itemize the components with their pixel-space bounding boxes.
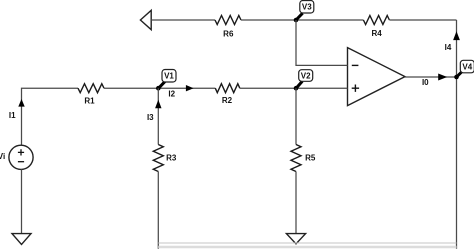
wire node V1 down to R3 [157, 88, 159, 144]
junction at node V3 [294, 18, 299, 23]
junction at node V2 [294, 86, 299, 91]
voltage source Vi [0, 145, 33, 169]
current arrow I4 [453, 31, 460, 40]
wire R5 down to ground [295, 172, 297, 234]
ground GND3 (below R5) [286, 234, 305, 244]
wire R3 down to bottom rail [157, 172, 159, 249]
tick node V4 to label [457, 71, 463, 77]
wire Vi down to ground [21, 169, 23, 233]
svg-text:R2: R2 [222, 96, 233, 105]
resistor R3 [153, 145, 177, 172]
wire node V3 down to inverting input [296, 20, 348, 65]
svg-text:R6: R6 [223, 30, 234, 39]
current arrow I0 [438, 74, 447, 81]
svg-text:V1: V1 [164, 72, 174, 81]
svg-text:I2: I2 [168, 90, 175, 99]
ground GND2 (below Vi) [12, 234, 31, 245]
wire node V2 down to R5 [295, 88, 297, 144]
tick node V3 to label [296, 13, 303, 20]
node label V3 [300, 1, 314, 14]
node label V1 [162, 70, 176, 83]
wire R2 to node V2 and on to non-inverting input [240, 87, 348, 89]
svg-text:I0: I0 [422, 78, 429, 87]
resistor R4 [363, 16, 389, 38]
svg-text:R3: R3 [166, 154, 177, 163]
svg-text:R1: R1 [84, 96, 95, 105]
node label V4 [460, 60, 474, 73]
wire R4 to top-right corner [389, 19, 456, 21]
op-amp U1 [348, 48, 406, 106]
wire R1 to node V1 and on to R2 [104, 87, 215, 89]
svg-text:V3: V3 [302, 3, 312, 12]
resistor R5 [291, 145, 316, 172]
svg-text:Vi: Vi [0, 152, 5, 161]
svg-text:I3: I3 [147, 113, 154, 122]
junction at node V4 [454, 75, 459, 80]
resistor R6 [215, 16, 241, 39]
wire right vertical (corner down through node V4 to bottom) [456, 20, 458, 249]
junction at node V1 [156, 86, 161, 91]
ground GND1 (rotated, pointing left, top-left) [140, 10, 151, 29]
svg-text:V4: V4 [462, 62, 472, 71]
wire left branch: corner to R1 and down to source Vi [22, 88, 79, 145]
svg-text:R5: R5 [305, 154, 316, 163]
current arrow I3 [155, 100, 161, 109]
tick node V2 to label [296, 81, 302, 88]
wire op-amp output to node V4 [405, 76, 457, 78]
resistor R1 [78, 84, 104, 106]
current arrow I1 [18, 99, 24, 107]
svg-text:I4: I4 [445, 43, 452, 52]
wire R6 to node V3 and on to R4 [241, 19, 363, 21]
svg-text:I1: I1 [9, 111, 16, 120]
node label V2 [299, 70, 313, 82]
current arrow I2 [186, 85, 194, 91]
tick node V1 to label [158, 81, 165, 88]
resistor R2 [215, 84, 240, 105]
wire bottom rail (R3 to node V4 branch) [158, 242, 456, 244]
wire bottom rail lower run [158, 246, 456, 248]
wire GND1 to R6 [151, 19, 215, 21]
svg-text:R4: R4 [371, 29, 382, 38]
svg-text:V2: V2 [301, 71, 311, 80]
